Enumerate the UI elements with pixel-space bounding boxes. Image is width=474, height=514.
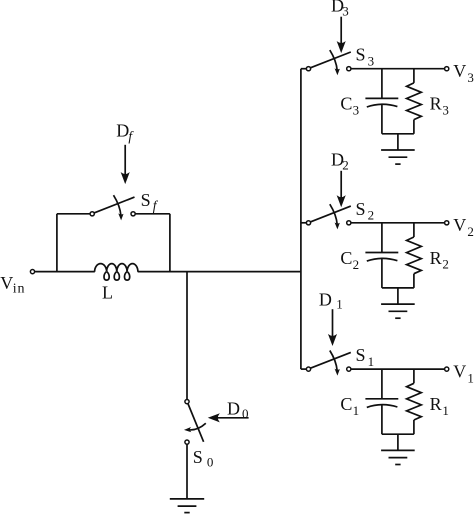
label V2 bbox=[453, 215, 474, 239]
wire output row 3 bbox=[351, 68, 445, 70]
terminal V3 bbox=[445, 67, 449, 71]
svg-text:L: L bbox=[102, 282, 113, 302]
terminal Vin bbox=[30, 270, 34, 274]
terminal V2 bbox=[445, 221, 449, 225]
svg-text:D: D bbox=[319, 290, 332, 310]
svg-text:2: 2 bbox=[342, 158, 349, 173]
svg-text:3: 3 bbox=[467, 70, 474, 85]
svg-text:3: 3 bbox=[342, 4, 349, 19]
ground S0 bbox=[170, 499, 204, 513]
label R3 bbox=[430, 94, 449, 118]
svg-text:2: 2 bbox=[442, 257, 449, 272]
svg-text:D: D bbox=[227, 398, 240, 418]
label D0 bbox=[227, 398, 249, 421]
svg-text:D: D bbox=[116, 121, 129, 141]
resistor R3 bbox=[407, 69, 422, 134]
label R2 bbox=[430, 248, 449, 272]
arrow D1 bbox=[329, 309, 337, 345]
label C2 bbox=[340, 248, 359, 272]
arrow D0 bbox=[209, 414, 249, 422]
svg-text:1: 1 bbox=[353, 403, 360, 418]
svg-text:3: 3 bbox=[442, 103, 449, 118]
switch S0 bbox=[185, 400, 206, 445]
svg-text:3: 3 bbox=[353, 103, 360, 118]
label C3 bbox=[340, 94, 359, 118]
wire Sf right leg bbox=[169, 214, 171, 272]
svg-text:0: 0 bbox=[207, 454, 214, 469]
switch Sf bbox=[90, 195, 135, 219]
label Df bbox=[116, 121, 134, 144]
wire Sf top-left bbox=[57, 213, 90, 215]
switch S2 bbox=[306, 204, 351, 228]
svg-text:2: 2 bbox=[467, 224, 474, 239]
node bus bbox=[300, 69, 302, 369]
svg-text:1: 1 bbox=[467, 371, 474, 386]
arrow Df bbox=[121, 145, 129, 184]
wire branch 3 bottom bbox=[382, 133, 414, 135]
label Sf bbox=[141, 190, 159, 213]
svg-text:in: in bbox=[13, 282, 25, 297]
switch S1 bbox=[306, 351, 351, 375]
svg-text:C: C bbox=[340, 94, 352, 114]
svg-text:2: 2 bbox=[368, 208, 375, 223]
svg-text:S: S bbox=[193, 447, 203, 467]
label D3 bbox=[331, 0, 349, 19]
svg-text:C: C bbox=[340, 248, 352, 268]
ground branch 3 bbox=[381, 134, 415, 164]
svg-text:V: V bbox=[453, 361, 466, 381]
svg-text:V: V bbox=[0, 273, 13, 293]
wire bus stub S3 bbox=[301, 68, 307, 70]
ground branch 1 bbox=[381, 434, 415, 464]
label Vin bbox=[0, 273, 25, 296]
svg-text:0: 0 bbox=[242, 406, 249, 421]
svg-text:1: 1 bbox=[368, 354, 375, 369]
svg-text:1: 1 bbox=[442, 403, 449, 418]
wire branch 1 bottom bbox=[382, 433, 414, 435]
wire main left bbox=[35, 271, 95, 273]
label S1 bbox=[356, 345, 375, 369]
svg-text:V: V bbox=[453, 61, 466, 81]
svg-text:S: S bbox=[141, 190, 151, 210]
svg-text:S: S bbox=[356, 199, 366, 219]
label S0 bbox=[193, 447, 214, 469]
svg-text:R: R bbox=[430, 94, 442, 114]
svg-text:R: R bbox=[430, 394, 442, 414]
arrow D3 bbox=[337, 17, 345, 53]
wire Sf top-right bbox=[135, 213, 170, 215]
svg-text:C: C bbox=[340, 394, 352, 414]
wire bus stub S2 bbox=[301, 222, 307, 224]
svg-text:S: S bbox=[356, 345, 366, 365]
wire S0 to ground bbox=[186, 444, 188, 499]
terminal V1 bbox=[445, 367, 449, 371]
capacitor C3 bbox=[365, 69, 398, 134]
svg-text:f: f bbox=[153, 198, 159, 213]
wire bus stub S1 bbox=[301, 368, 307, 370]
label V3 bbox=[453, 61, 474, 85]
svg-text:1: 1 bbox=[336, 296, 343, 311]
label S2 bbox=[356, 199, 375, 223]
capacitor C1 bbox=[365, 369, 398, 434]
capacitor C2 bbox=[365, 223, 398, 288]
label L bbox=[102, 282, 113, 302]
svg-text:3: 3 bbox=[368, 54, 375, 69]
switch S3 bbox=[306, 50, 351, 74]
inductor L bbox=[95, 264, 138, 281]
ground branch 2 bbox=[381, 288, 415, 318]
label D2 bbox=[331, 149, 349, 172]
resistor R2 bbox=[407, 223, 422, 288]
label C1 bbox=[340, 394, 359, 418]
label D1 bbox=[319, 290, 343, 312]
wire output row 2 bbox=[351, 222, 445, 224]
wire main right bbox=[138, 271, 301, 273]
svg-text:R: R bbox=[430, 248, 442, 268]
svg-text:2: 2 bbox=[353, 257, 360, 272]
label R1 bbox=[430, 394, 449, 418]
wire output row 1 bbox=[351, 368, 445, 370]
wire branch 2 bottom bbox=[382, 287, 414, 289]
label V1 bbox=[453, 361, 474, 385]
arrow D2 bbox=[337, 171, 345, 207]
resistor R1 bbox=[407, 369, 422, 434]
label S3 bbox=[356, 45, 375, 69]
svg-text:V: V bbox=[453, 215, 466, 235]
wire Sf left leg bbox=[56, 214, 58, 272]
svg-text:f: f bbox=[128, 129, 134, 144]
wire S0 drop bbox=[186, 272, 188, 400]
svg-text:S: S bbox=[356, 45, 366, 65]
